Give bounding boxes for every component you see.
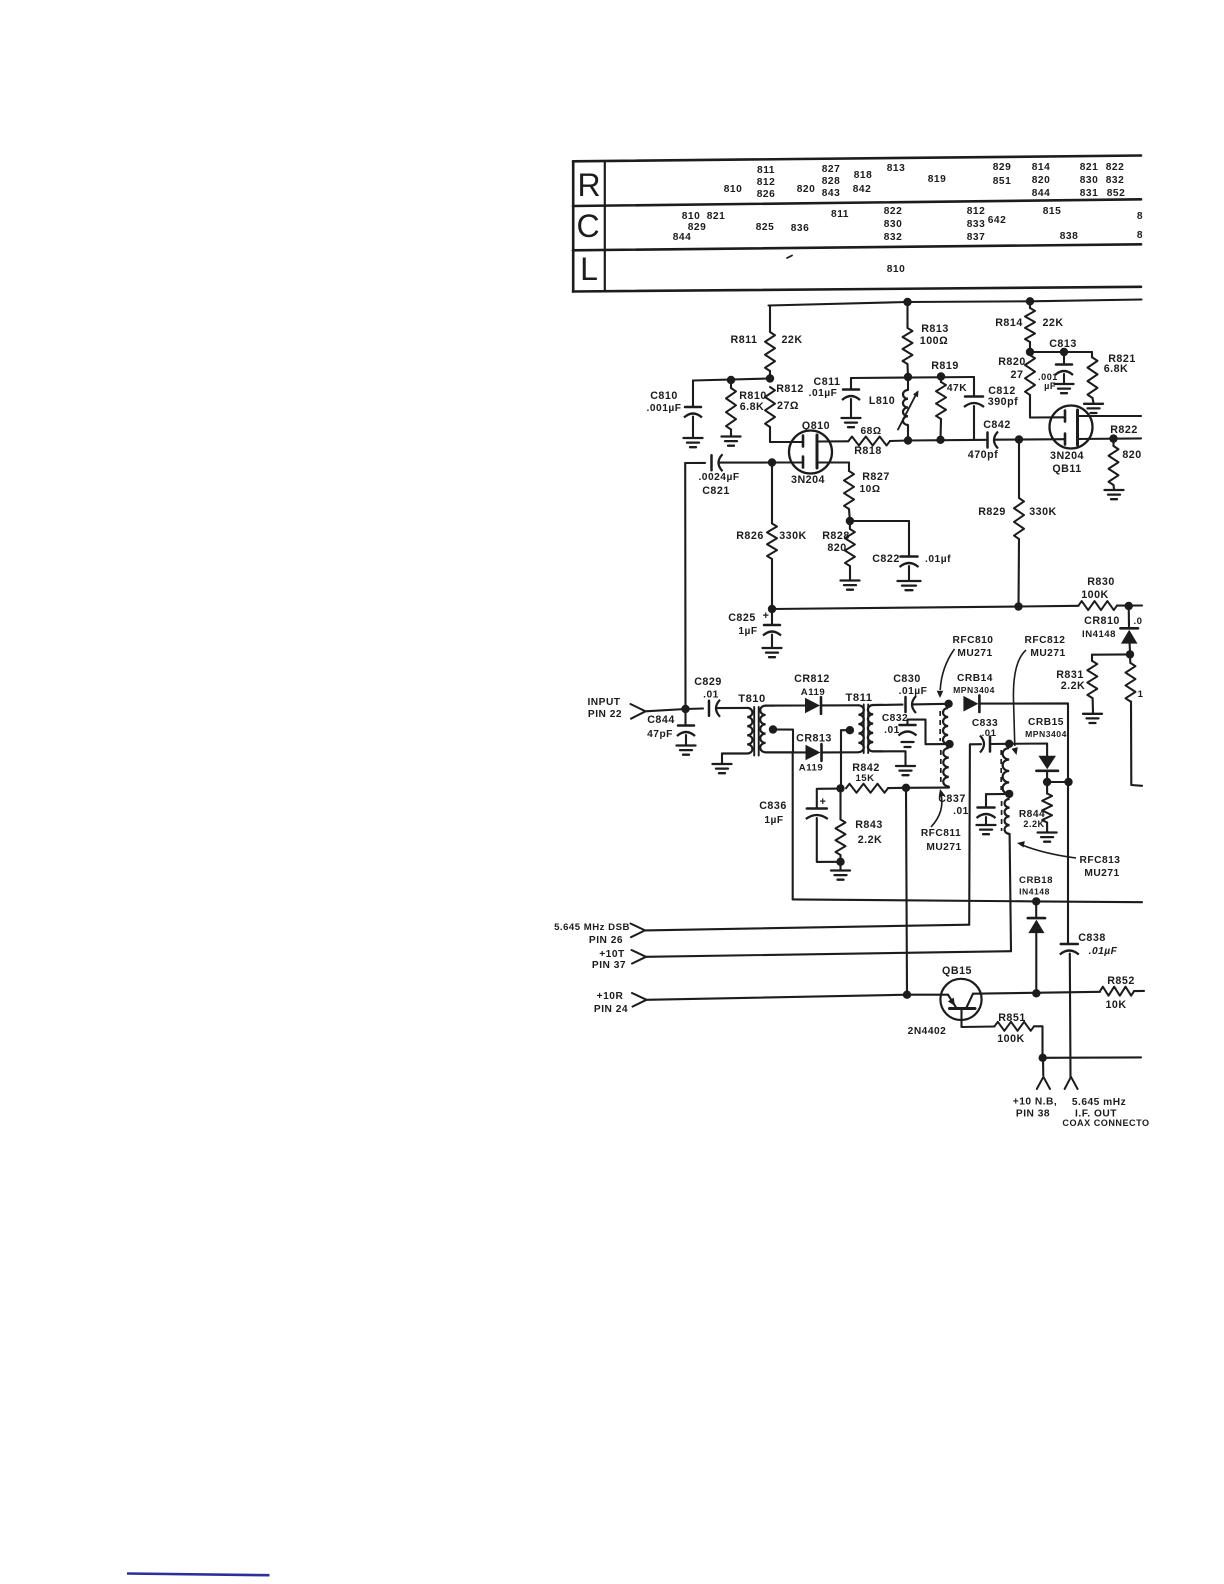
node rail-R813 [903, 298, 911, 306]
svg-text:R818: R818 [854, 445, 882, 457]
ground T811 secondary [896, 766, 915, 775]
wire R842node down [906, 788, 907, 995]
ground T810 primary [713, 764, 732, 773]
wire C821 left vert [684, 463, 686, 709]
svg-text:R827: R827 [862, 471, 890, 483]
svg-text:C829: C829 [694, 676, 722, 688]
svg-text:COAX CONNECTO: COAX CONNECTO [1062, 1118, 1149, 1128]
svg-text:.01µf: .01µf [925, 554, 951, 565]
diode CR815 MPN3404 [1025, 717, 1067, 782]
wire +10T line [646, 951, 1011, 957]
resistor R822/820 [1109, 424, 1142, 489]
svg-text:100K: 100K [997, 1033, 1025, 1045]
ground C810 [684, 438, 703, 447]
svg-text:T810: T810 [738, 693, 766, 705]
svg-text:+10T: +10T [599, 949, 625, 960]
svg-text:819: 819 [928, 174, 947, 185]
svg-text:MPN3404: MPN3404 [1025, 729, 1067, 739]
wire CR812 to T811 [822, 704, 858, 706]
leader RFC810 [937, 649, 955, 698]
wire DSB line [645, 925, 969, 931]
svg-text:812: 812 [757, 177, 776, 188]
resistor R831 [1056, 655, 1097, 713]
svg-text:R: R [577, 167, 600, 203]
resistor R814 [995, 301, 1063, 352]
diode CR813 A119 [796, 733, 832, 774]
table row label C [576, 208, 599, 244]
svg-text:837: 837 [967, 232, 986, 243]
resistor R826 [736, 463, 807, 610]
svg-text:822: 822 [884, 206, 903, 217]
svg-text:8: 8 [1137, 211, 1143, 222]
transistor Q815 2N4402 PNP [908, 965, 995, 1037]
diode CRB18 1N4148 [1019, 875, 1053, 993]
svg-text:RFC813: RFC813 [1080, 855, 1121, 866]
capacitor C844 47pF [647, 709, 695, 745]
rfc RFC811 MU271 [906, 748, 962, 853]
svg-text:T811: T811 [846, 692, 873, 704]
wire T810sec to CR812 [774, 704, 806, 706]
node R843 bottom [836, 858, 844, 866]
pin 24 chevron [632, 993, 647, 1007]
wire T811 tap [841, 730, 850, 788]
resistor R810 [726, 380, 767, 436]
resistor R821 [1088, 352, 1136, 403]
node R822 top [1109, 434, 1117, 442]
wire 440 bus left [908, 439, 987, 442]
svg-text:47K: 47K [947, 383, 967, 394]
resistor R828 [822, 521, 855, 580]
pin 24 label +10R [594, 991, 628, 1015]
svg-text:15K: 15K [855, 773, 874, 784]
transformer T810 [722, 693, 793, 763]
svg-text:R830: R830 [1087, 576, 1115, 588]
svg-text:825: 825 [756, 222, 775, 233]
svg-text:828: 828 [822, 176, 841, 187]
transistor Q811 3N204 dual-gate MOSFET [1050, 406, 1142, 476]
svg-text:6.8K: 6.8K [740, 401, 765, 413]
svg-text:R813: R813 [921, 323, 949, 335]
svg-text:821: 821 [1080, 162, 1099, 173]
ground C822 [898, 581, 921, 590]
svg-text:L810: L810 [869, 395, 895, 407]
svg-text:851: 851 [993, 176, 1012, 187]
diode CR810 1N4148 [1082, 606, 1138, 652]
svg-text:330K: 330K [779, 530, 807, 542]
table C row values [673, 206, 1143, 243]
capacitor C822 [872, 521, 951, 580]
svg-text:CRB15: CRB15 [1028, 717, 1064, 728]
svg-text:3N204: 3N204 [1050, 450, 1084, 462]
wire CR813 to T811 [823, 751, 859, 753]
wire box left [792, 752, 794, 899]
table row label R [577, 167, 600, 203]
svg-text:838: 838 [1060, 231, 1079, 242]
svg-text:MU271: MU271 [1030, 648, 1065, 659]
wire top supply rail [769, 300, 1142, 306]
wire T810 tap [773, 730, 793, 753]
svg-text:832: 832 [1106, 175, 1125, 186]
node CR810 anode [1126, 650, 1134, 658]
wire node-377 bus [851, 377, 974, 378]
svg-text:818: 818 [854, 170, 873, 181]
svg-text:+: + [763, 610, 770, 622]
node RFC812-RFC813-C837 [1005, 790, 1013, 798]
svg-text:PIN 24: PIN 24 [594, 1004, 628, 1015]
svg-text:827: 827 [822, 164, 841, 175]
wire +10R line [647, 995, 908, 1000]
table R row values [724, 162, 1126, 200]
svg-text:IN4148: IN4148 [1082, 629, 1116, 640]
node CR810 top [1125, 602, 1133, 610]
svg-text:843: 843 [822, 188, 841, 199]
wire pin38 stem [1042, 1058, 1044, 1076]
svg-text:2N4402: 2N4402 [908, 1026, 947, 1037]
svg-text:820: 820 [827, 542, 846, 554]
svg-text:MPN3404: MPN3404 [953, 685, 995, 695]
capacitor C838 .01uF [1060, 932, 1118, 1077]
svg-text:822: 822 [1106, 162, 1125, 173]
ground R822 [1105, 490, 1124, 499]
node R829 top [1015, 435, 1023, 443]
svg-text:L: L [580, 251, 598, 287]
ground R810 [722, 437, 741, 446]
node L810 bottom [904, 436, 912, 444]
pin 37 chevron [632, 950, 647, 964]
wire T811 sec bottom [873, 751, 905, 765]
if out labels [1062, 1097, 1149, 1128]
wire T811 sec top [882, 704, 902, 706]
node R827-R828 [846, 517, 854, 525]
node R810 top [727, 376, 735, 384]
capacitor C825 1uF [728, 609, 781, 647]
svg-text:C810: C810 [650, 390, 678, 402]
svg-text:.01µF: .01µF [1089, 946, 1118, 957]
svg-text:820: 820 [797, 184, 816, 195]
capacitor C833 .01 [972, 718, 1009, 753]
svg-text:836: 836 [791, 223, 810, 234]
svg-text:+: + [820, 796, 827, 808]
svg-text:47pF: 47pF [647, 729, 673, 740]
svg-text:R828: R828 [822, 530, 850, 542]
svg-text:C836: C836 [759, 800, 787, 812]
svg-text:PIN 37: PIN 37 [592, 960, 626, 971]
node C813 top [1060, 348, 1068, 356]
ground C825 [763, 648, 782, 657]
wire collector line [973, 992, 1100, 994]
inductor L810 (variable) [869, 377, 919, 440]
resistor R843 2.2K [836, 788, 883, 861]
svg-text:.001µF: .001µF [647, 403, 682, 414]
svg-text:22K: 22K [1042, 317, 1063, 329]
capacitor C811 [809, 376, 860, 417]
wire to C822 [850, 520, 909, 522]
svg-text:829: 829 [993, 162, 1012, 173]
transformer T811 [846, 692, 883, 753]
svg-text:C: C [576, 208, 599, 244]
svg-text:5.645 mHz: 5.645 mHz [1072, 1097, 1126, 1108]
svg-text:812: 812 [967, 206, 986, 217]
svg-text:27Ω: 27Ω [777, 400, 799, 412]
svg-text:A119: A119 [799, 763, 823, 774]
svg-text:821: 821 [707, 211, 726, 222]
svg-text:68Ω: 68Ω [861, 426, 882, 437]
svg-text:1: 1 [1138, 689, 1144, 700]
svg-text:QB15: QB15 [942, 965, 972, 977]
svg-text:1µF: 1µF [764, 815, 783, 826]
svg-text:R819: R819 [931, 360, 959, 372]
svg-text:826: 826 [757, 189, 776, 200]
node CRB14 anode [944, 700, 952, 708]
svg-text:R822: R822 [1110, 424, 1138, 436]
node +10R riser [903, 991, 911, 999]
pin 26 chevron [631, 924, 646, 938]
svg-text:.01: .01 [953, 806, 969, 817]
node R811-R810-R812 [766, 374, 774, 382]
wire CRB14 out [981, 703, 1069, 943]
svg-text:10K: 10K [1105, 999, 1126, 1011]
svg-text:1µF: 1µF [738, 626, 757, 637]
node C844 [681, 705, 689, 713]
leader RFC812 [1012, 650, 1027, 755]
svg-text:CRB18: CRB18 [1019, 875, 1053, 886]
svg-text:842: 842 [853, 184, 872, 195]
svg-text:C822: C822 [872, 553, 900, 565]
svg-text:CR810: CR810 [1084, 615, 1120, 627]
rfc RFC813 MU271 [1002, 799, 1121, 951]
wire DSB riser [969, 744, 981, 925]
node CR815 cathode [1043, 778, 1051, 786]
svg-text:820: 820 [1122, 449, 1141, 461]
capacitor C830 .01uF [893, 673, 948, 713]
ground C811 [842, 418, 861, 427]
svg-text:INPUT: INPUT [587, 697, 620, 708]
ground C813 [1055, 384, 1074, 393]
svg-text:814: 814 [1032, 162, 1051, 173]
svg-text:820: 820 [1032, 175, 1051, 186]
node RFC810-RFC811-C832 [945, 740, 953, 748]
svg-text:RFC810: RFC810 [953, 635, 994, 646]
svg-text:RFC811: RFC811 [921, 828, 961, 839]
svg-text:810: 810 [724, 184, 743, 195]
pin 26 label 5.645 MHz DSB [554, 922, 630, 946]
svg-text:+10R: +10R [597, 991, 624, 1002]
capacitor C812 [964, 377, 1018, 440]
resistor R844 2.2K [1019, 782, 1052, 832]
resistor R832 (clipped) [1126, 654, 1144, 785]
rfc RFC812 MU271 [1001, 635, 1065, 794]
svg-text:R843: R843 [855, 819, 883, 831]
capacitor C836 1uF [759, 796, 840, 862]
svg-text:831: 831 [1080, 188, 1099, 199]
ground C837 [977, 825, 996, 834]
svg-text:C830: C830 [893, 673, 921, 685]
svg-text:R811: R811 [731, 334, 758, 346]
svg-text:.01µF: .01µF [809, 388, 838, 399]
resistor R818 [849, 426, 909, 457]
node C833-RFC812 [1005, 740, 1013, 748]
node R851 bottom [1039, 1054, 1047, 1062]
svg-text:MU271: MU271 [957, 648, 992, 659]
resistor R827 [844, 463, 890, 522]
diode CRB14 MPN3404 [953, 673, 995, 712]
node C825 top [768, 605, 776, 613]
input pin 22 chevron [631, 704, 646, 719]
wire node652 [1092, 653, 1130, 655]
resistor R830 [1079, 576, 1143, 610]
page mark blue line [127, 1574, 270, 1576]
pin 38 label +10 N.B. [1013, 1097, 1058, 1120]
svg-text:A119: A119 [801, 687, 825, 698]
svg-text:844: 844 [1032, 188, 1051, 199]
svg-text:3N204: 3N204 [791, 474, 825, 486]
leader RFC813 [1017, 841, 1076, 858]
svg-text:C832: C832 [882, 713, 908, 724]
svg-text:844: 844 [673, 232, 692, 243]
svg-text:5.645 MHz DSB: 5.645 MHz DSB [554, 922, 630, 933]
svg-text:815: 815 [1043, 206, 1062, 217]
svg-text:.01: .01 [884, 725, 900, 736]
resistor R829 [978, 440, 1057, 607]
node CRB18 anode [1032, 989, 1040, 997]
rfc RFC810 MU271 [940, 635, 993, 744]
wire +10R to Q815 [907, 994, 948, 996]
node L810 top [904, 373, 912, 381]
svg-text:R826: R826 [736, 530, 764, 542]
wire C842 to Q811 [995, 438, 1066, 441]
node R842 left [836, 784, 844, 792]
wire input [646, 709, 686, 711]
svg-text:100K: 100K [1081, 589, 1109, 601]
resistor R842 15K [846, 762, 906, 793]
resistor R811 [731, 306, 803, 379]
ground C832 (small) [902, 742, 914, 747]
table row label L [580, 251, 598, 287]
svg-text:642: 642 [988, 215, 1007, 226]
svg-text:22K: 22K [781, 334, 802, 346]
table stray tick [787, 256, 792, 259]
wire lower rail [772, 606, 1079, 609]
ground C844 [677, 746, 696, 755]
svg-text:R851: R851 [998, 1012, 1026, 1024]
capacitor C829 .01 [686, 676, 748, 717]
wire CR815 to riser [1047, 781, 1068, 783]
wire 1058 line [1043, 1056, 1141, 1059]
svg-text:CRB14: CRB14 [957, 673, 993, 684]
svg-text:C844: C844 [647, 714, 675, 726]
node R819 bottom [936, 436, 944, 444]
svg-text:PIN 38: PIN 38 [1016, 1109, 1050, 1120]
pin 38 chevron [1037, 1077, 1050, 1089]
wire R842 node to C836 [817, 789, 841, 808]
capacitor C810 [647, 381, 702, 438]
input pin 22 labels [587, 697, 622, 720]
svg-text:MU271: MU271 [926, 842, 961, 853]
resistor R819 [931, 360, 967, 440]
svg-text:CR813: CR813 [796, 733, 832, 745]
svg-text:R814: R814 [995, 317, 1023, 329]
svg-text:2.2K: 2.2K [858, 834, 883, 846]
transistor Q810 3N204 dual-gate MOSFET [770, 420, 849, 486]
leader RFC811 [931, 789, 945, 827]
svg-text:R812: R812 [776, 383, 804, 395]
svg-text:C813: C813 [1049, 338, 1077, 350]
pin 37 label +10T [592, 949, 626, 971]
svg-text:PIN 26: PIN 26 [589, 935, 623, 946]
table L row value 810 [887, 264, 906, 275]
svg-text:2.2K: 2.2K [1061, 680, 1086, 692]
svg-text:813: 813 [887, 163, 906, 174]
svg-text:832: 832 [884, 232, 903, 243]
ground R821 [1084, 404, 1103, 413]
node gate2/R826 [768, 458, 776, 466]
svg-text:C842: C842 [983, 419, 1011, 431]
svg-text:2.2K: 2.2K [1023, 819, 1044, 829]
node T811 primary tap [846, 726, 854, 734]
wire CR813 line [793, 751, 806, 753]
svg-text:.01: .01 [703, 690, 719, 701]
ground R828 [841, 581, 860, 590]
svg-text:.0024µF: .0024µF [698, 472, 739, 483]
svg-text:.01: .01 [982, 728, 997, 739]
table grid [573, 156, 1141, 292]
svg-text:811: 811 [757, 165, 775, 176]
svg-text:+10 N.B,: +10 N.B, [1013, 1097, 1058, 1108]
svg-text:27: 27 [1011, 369, 1024, 381]
node rail-R814 [1026, 297, 1034, 305]
resistor R813 [903, 302, 949, 377]
svg-text:.0: .0 [1133, 616, 1142, 627]
label .0 (clipped) [1133, 616, 1142, 627]
svg-text:IN4148: IN4148 [1019, 887, 1050, 897]
svg-text:QB11: QB11 [1052, 463, 1081, 475]
node riser-782 [1064, 778, 1072, 786]
capacitor C842 [968, 419, 1011, 461]
ground R831 [1083, 714, 1102, 723]
diode CR812 A119 [794, 673, 830, 714]
svg-text:830: 830 [884, 219, 903, 230]
svg-text:10Ω: 10Ω [860, 484, 881, 495]
node R814-R820 [1026, 348, 1034, 356]
svg-text:R829: R829 [978, 506, 1006, 518]
resistor R852 10K [1100, 975, 1144, 1011]
wire C810 node [693, 379, 770, 381]
svg-text:R852: R852 [1107, 975, 1135, 987]
node R829 bottom [1014, 602, 1022, 610]
wire node352 [1030, 351, 1092, 353]
node R842 right [902, 784, 910, 792]
if out chevron [1065, 1077, 1078, 1089]
ground R843 [831, 862, 850, 880]
wire box bottom [793, 899, 1142, 902]
capacitor C813 [1038, 338, 1077, 391]
node CRB18 top [1032, 897, 1040, 905]
svg-text:390pf: 390pf [988, 396, 1018, 408]
svg-text:C837: C837 [938, 793, 966, 805]
capacitor C832 .01 [882, 713, 950, 744]
svg-text:830: 830 [1080, 175, 1099, 186]
ground R844 [1038, 833, 1057, 842]
svg-text:100Ω: 100Ω [920, 335, 948, 347]
svg-text:C825: C825 [728, 612, 756, 624]
svg-text:Q810: Q810 [802, 420, 830, 432]
svg-text:330K: 330K [1029, 506, 1057, 518]
node T810 secondary tap [769, 725, 777, 733]
svg-text:R820: R820 [998, 356, 1026, 368]
resistor R851 100K [995, 1012, 1043, 1058]
svg-text:810: 810 [887, 264, 906, 275]
svg-text:C838: C838 [1078, 932, 1106, 944]
